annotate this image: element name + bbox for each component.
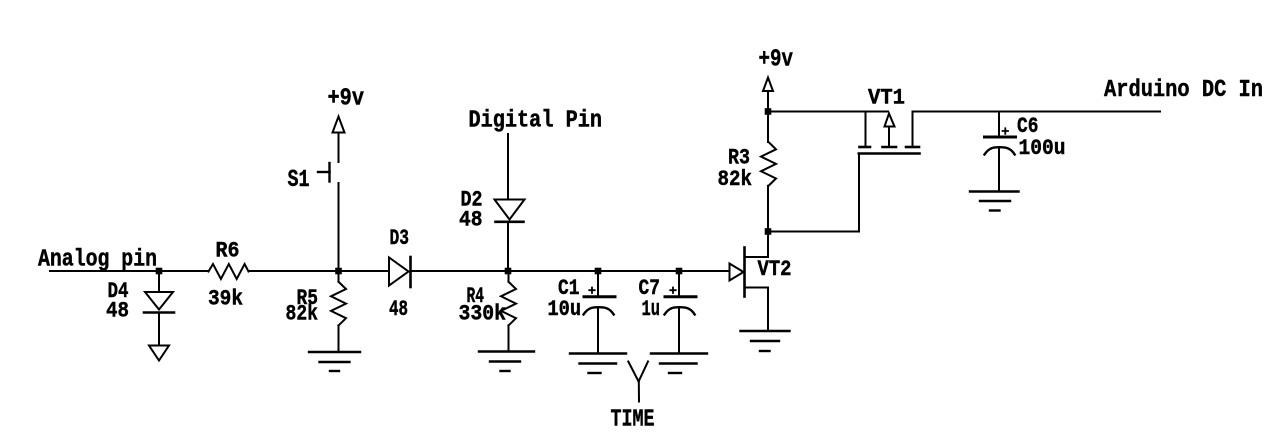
ground below R5	[309, 352, 360, 371]
svg-text:48: 48	[389, 297, 408, 322]
svg-text:82k: 82k	[718, 167, 753, 192]
node junction at R3/VT2 drain	[765, 228, 772, 235]
wire D4 cathode to arrow	[158, 314, 160, 346]
label C1 value 10u	[548, 297, 582, 322]
wire junction to C7	[678, 271, 680, 296]
label R3	[728, 146, 750, 171]
ground below C6	[970, 192, 1019, 211]
label D2	[461, 188, 483, 213]
node junction at S1/R5	[335, 268, 342, 275]
wire D3 to VT2	[411, 270, 730, 272]
wire VT1 source stem	[912, 112, 914, 147]
label R6	[216, 239, 240, 264]
node Analog pin label	[38, 247, 157, 274]
svg-text:48: 48	[106, 299, 129, 324]
switch S1 actuator	[318, 163, 330, 182]
wire C6 top stub	[998, 112, 1000, 136]
wire R5 to ground	[338, 326, 340, 352]
node junction at C7	[676, 268, 683, 275]
label R3 value 82k	[718, 167, 753, 192]
node junction at D2/R4	[505, 268, 512, 275]
ground below C7	[651, 354, 707, 374]
label R5 value 82k	[286, 302, 319, 327]
svg-text:10u: 10u	[548, 297, 582, 322]
antenna TIME marker	[628, 362, 648, 402]
resistor R5	[331, 282, 346, 326]
wire +9v junction to VT1 drain	[768, 111, 888, 113]
label C7 value 1u	[642, 297, 661, 322]
svg-text:Digital Pin: Digital Pin	[469, 108, 603, 135]
wire junction to C1	[597, 271, 599, 296]
svg-text:S1: S1	[288, 167, 310, 194]
wire D2 to junction	[507, 222, 509, 271]
wire junction to R5	[338, 271, 340, 282]
power +9v label right	[759, 47, 794, 74]
wire +9v arrow to junction	[767, 92, 769, 112]
node junction at +9v/R3/VT1	[765, 108, 772, 115]
svg-text:Arduino DC In: Arduino DC In	[1104, 77, 1263, 104]
svg-text:D3: D3	[390, 226, 410, 251]
svg-text:+9v: +9v	[759, 47, 794, 74]
label C6 value 100u	[1019, 136, 1066, 161]
label D3 value 48	[389, 297, 408, 322]
ground below VT2	[741, 331, 790, 351]
label R4	[467, 284, 485, 309]
wire VT1 gate connection	[768, 154, 859, 232]
label TIME	[611, 407, 655, 434]
wire R3 to drain junction	[767, 186, 769, 232]
power arrow +9v right	[763, 78, 773, 92]
svg-text:VT2: VT2	[758, 257, 792, 282]
label VT1	[868, 86, 905, 111]
svg-text:R6: R6	[216, 239, 240, 264]
node junction at D4	[156, 268, 163, 275]
svg-text:82k: 82k	[286, 302, 319, 327]
wire R6 to D3	[249, 270, 390, 272]
label D4 value 48	[106, 299, 129, 324]
label C7	[639, 276, 661, 301]
wire Digital Pin to D2	[507, 134, 509, 199]
wire VT1 drain stem	[865, 112, 867, 147]
capacitor C6	[985, 128, 1016, 154]
svg-text:39k: 39k	[208, 287, 243, 312]
label C6	[1017, 114, 1039, 139]
wire VT2 drain lead	[745, 232, 769, 257]
wire junction down to R3	[767, 112, 769, 143]
wire VT1 source to Arduino DC In	[913, 111, 1161, 113]
ground arrow below D4	[149, 346, 169, 361]
wire +9v arrow to switch	[338, 133, 340, 162]
svg-text:+9v: +9v	[328, 86, 365, 113]
wire switch to junction	[338, 183, 340, 271]
svg-text:1u: 1u	[642, 297, 661, 322]
svg-text:100u: 100u	[1019, 136, 1066, 161]
transistor VT1	[859, 114, 920, 154]
capacitor C7	[665, 288, 697, 315]
svg-text:TIME: TIME	[611, 407, 655, 434]
power arrow +9v left	[333, 117, 345, 133]
wire junction to R4	[508, 271, 510, 282]
label C1	[558, 276, 580, 301]
node Digital Pin label	[469, 108, 603, 135]
diode D3	[389, 257, 411, 287]
node Arduino DC In label	[1104, 77, 1263, 104]
resistor R6	[209, 264, 249, 279]
wire R4 to ground	[508, 326, 510, 352]
ground below C1	[570, 354, 626, 374]
svg-text:48: 48	[459, 208, 483, 233]
label D3	[390, 226, 410, 251]
label D2 value 48	[459, 208, 483, 233]
label R5	[297, 286, 319, 311]
label R6 value 39k	[208, 287, 243, 312]
transistor VT2	[730, 248, 745, 297]
label D4	[108, 279, 129, 304]
wire C1 to ground	[597, 308, 599, 353]
wire C6 to ground	[998, 148, 1000, 191]
wire C7 to ground	[678, 308, 680, 353]
diode D2	[495, 200, 525, 222]
svg-text:Analog pin: Analog pin	[38, 247, 157, 274]
svg-text:VT1: VT1	[868, 86, 905, 111]
label S1	[288, 167, 310, 194]
diode D4	[144, 292, 174, 313]
label VT2	[758, 257, 792, 282]
wire D4 anode stub	[158, 271, 160, 292]
label R4 value 330k	[459, 302, 507, 327]
resistor R3	[761, 142, 776, 186]
wire analog-pin bus left segment	[50, 270, 209, 272]
svg-text:330k: 330k	[459, 302, 507, 327]
wire VT2 source lead	[745, 288, 769, 330]
ground below R4	[479, 352, 534, 372]
capacitor C1	[584, 288, 616, 315]
power +9v label left	[328, 86, 365, 113]
node junction at C1	[595, 268, 602, 275]
resistor R4	[501, 282, 516, 326]
